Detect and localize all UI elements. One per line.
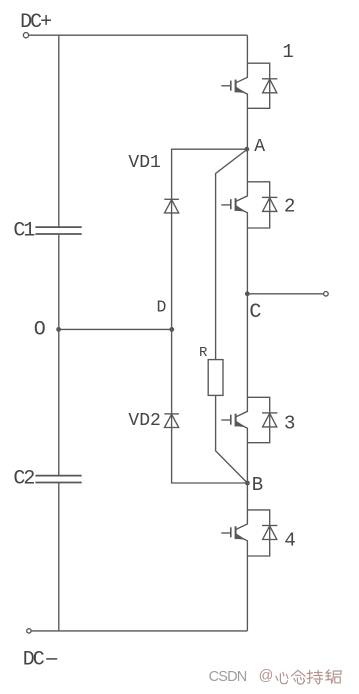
svg-text:DC: DC xyxy=(23,649,45,672)
svg-text:2: 2 xyxy=(284,196,295,218)
svg-text:A: A xyxy=(254,137,265,157)
svg-text:R: R xyxy=(199,345,208,361)
svg-text:O: O xyxy=(34,318,46,341)
svg-text:CSDN: CSDN xyxy=(209,669,247,685)
svg-text:VD2: VD2 xyxy=(128,411,160,431)
svg-text:VD1: VD1 xyxy=(128,153,160,173)
svg-text:C1: C1 xyxy=(13,219,35,242)
svg-text:D: D xyxy=(157,297,167,316)
svg-text:C2: C2 xyxy=(13,467,34,490)
svg-text:4: 4 xyxy=(284,530,295,552)
svg-text:B: B xyxy=(252,474,263,496)
svg-text:DC+: DC+ xyxy=(20,11,51,34)
svg-text:C: C xyxy=(249,301,261,324)
svg-text:3: 3 xyxy=(284,412,295,434)
svg-text:@: @ xyxy=(259,668,274,684)
svg-text:1: 1 xyxy=(282,41,293,63)
